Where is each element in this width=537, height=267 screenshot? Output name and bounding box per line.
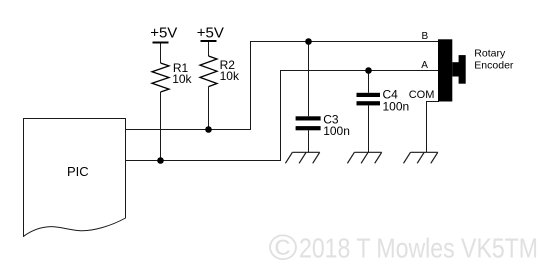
svg-text:COM: COM: [409, 89, 435, 101]
svg-text:10k: 10k: [220, 69, 240, 83]
svg-text:100n: 100n: [323, 124, 350, 138]
svg-text:©: ©: [269, 227, 298, 263]
svg-text:100n: 100n: [383, 99, 410, 113]
svg-text:2018 T Mowles VK5TM: 2018 T Mowles VK5TM: [299, 232, 537, 262]
svg-text:A: A: [421, 60, 428, 71]
svg-text:Rotary: Rotary: [474, 48, 506, 60]
svg-text:+5V: +5V: [197, 24, 224, 41]
svg-text:10k: 10k: [172, 72, 192, 86]
svg-text:Encoder: Encoder: [474, 60, 514, 72]
svg-text:+5V: +5V: [150, 24, 177, 41]
svg-text:B: B: [422, 31, 429, 42]
svg-text:PIC: PIC: [67, 164, 89, 179]
